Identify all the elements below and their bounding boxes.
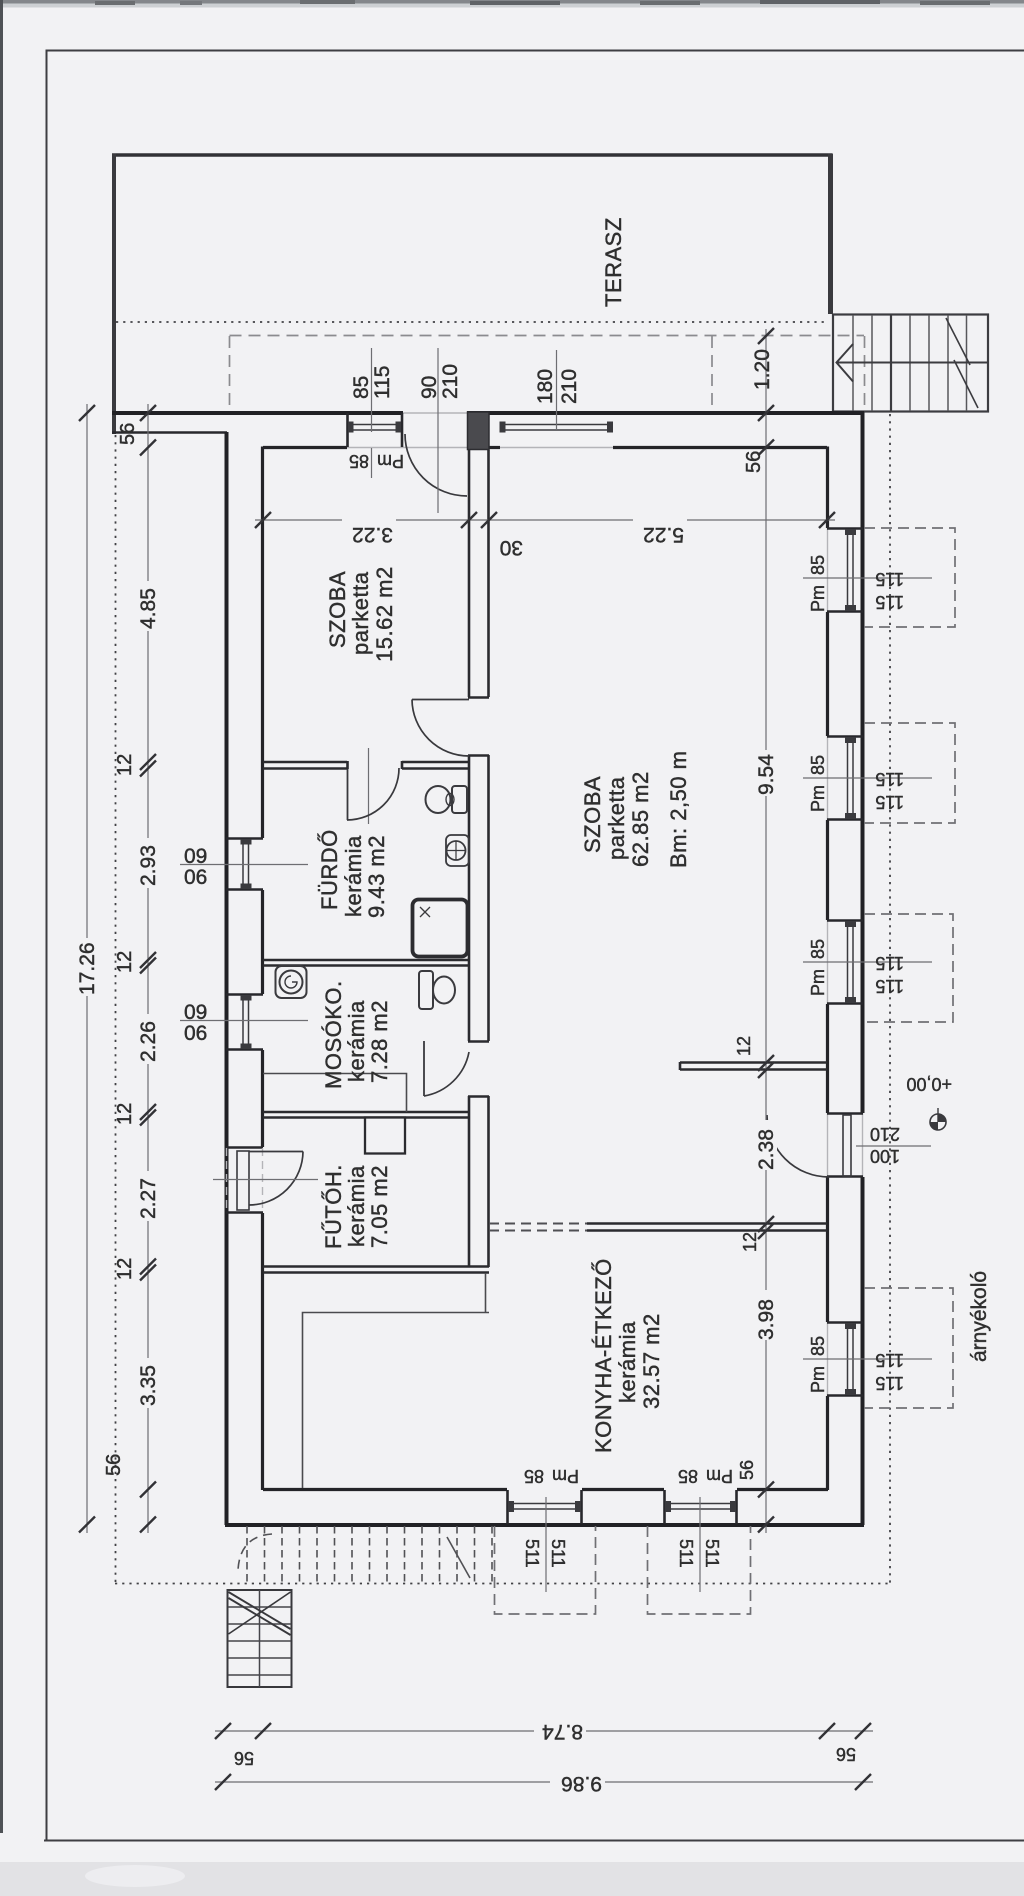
wall C (mosoko/futoh) — [263, 1112, 468, 1118]
stairs BL steps — [228, 1607, 291, 1675]
svg-text:Pm: Pm — [808, 969, 828, 996]
svg-text:12: 12 — [740, 1232, 760, 1252]
svg-text:511: 511 — [548, 1539, 568, 1568]
stairs TR mid rail — [836, 362, 988, 364]
dashed line horizontal — [230, 335, 865, 337]
svg-text:7.05 m2: 7.05 m2 — [367, 1165, 392, 1248]
terrace left wall — [112, 154, 116, 435]
right door arc — [767, 1115, 829, 1177]
svg-text:30: 30 — [500, 536, 523, 559]
walkline turn arc — [238, 1534, 272, 1570]
svg-text:115: 115 — [875, 769, 904, 789]
bottom door1 jambs — [506, 1490, 509, 1524]
svg-text:115: 115 — [875, 1373, 904, 1393]
steps upper flight — [247, 1526, 492, 1583]
top wall inner across openings (light) — [347, 447, 613, 449]
scan left edge line — [0, 0, 3, 1833]
svg-text:5.22: 5.22 — [643, 523, 684, 546]
svg-text:210: 210 — [558, 369, 581, 404]
svg-text:115: 115 — [875, 953, 904, 973]
dotted eaves top — [116, 321, 828, 323]
dotted eaves left — [115, 435, 117, 1583]
svg-text:Pm: Pm — [552, 1466, 579, 1486]
dashed line vertical mid — [711, 336, 713, 412]
svg-text:4.85: 4.85 — [137, 588, 160, 629]
svg-text:115: 115 — [371, 366, 394, 399]
terrace top wall — [112, 153, 832, 157]
svg-text:9.43 m2: 9.43 m2 — [364, 835, 389, 918]
svg-text:115: 115 — [875, 792, 904, 812]
svg-text:85: 85 — [349, 451, 369, 471]
right win1 — [827, 529, 863, 612]
door 90 top: arc — [405, 434, 467, 496]
svg-text:115: 115 — [875, 976, 904, 996]
dotted eaves right — [889, 414, 891, 1583]
right win3 — [827, 921, 863, 1004]
dim chain left — [147, 404, 149, 1533]
mosoko heater box — [276, 966, 307, 998]
dashed line vertical left — [229, 336, 231, 412]
bottom door2 glazing — [665, 1503, 736, 1505]
right door dim — [856, 1145, 931, 1147]
kitchen counter lines — [303, 1313, 490, 1489]
mosoko heater circle — [280, 971, 303, 994]
bottom wall inner face segments — [263, 1488, 828, 1491]
svg-text:Pm: Pm — [808, 1366, 828, 1393]
svg-text:06: 06 — [184, 866, 207, 889]
terrace right wall — [828, 154, 833, 315]
svg-text:17.26: 17.26 — [76, 942, 99, 995]
door A leaf — [347, 769, 349, 820]
svg-text:100: 100 — [870, 1146, 900, 1166]
top wall outer face — [112, 411, 403, 415]
right door 100 jambs — [827, 1112, 863, 1115]
left window sill dims — [180, 864, 308, 866]
svg-text:12: 12 — [114, 951, 136, 973]
svg-text:85: 85 — [808, 1336, 828, 1356]
svg-text:115: 115 — [875, 569, 904, 589]
svg-text:Pm: Pm — [808, 785, 828, 812]
vertical wall 30 — [468, 449, 489, 1267]
svg-text:62.85 m2: 62.85 m2 — [628, 771, 653, 867]
svg-text:parketta: parketta — [604, 776, 629, 860]
window 85 top: glazing — [348, 424, 401, 426]
svg-text:511: 511 — [522, 1539, 542, 1568]
furdo shower — [413, 900, 468, 957]
svg-text:115: 115 — [875, 1350, 904, 1370]
stairs TR step dark — [890, 315, 892, 411]
bottom door2 jambs — [663, 1490, 666, 1524]
svg-text:kerámia: kerámia — [615, 1321, 640, 1403]
svg-text:85: 85 — [524, 1466, 544, 1486]
bottom wall outer face — [225, 1523, 864, 1527]
svg-text:12: 12 — [114, 1103, 136, 1125]
svg-text:511: 511 — [702, 1539, 722, 1568]
svg-text:7.28 m2: 7.28 m2 — [367, 1000, 392, 1083]
bottom door dims — [545, 1497, 547, 1592]
svg-text:210: 210 — [439, 364, 462, 399]
window 85 top: end caps — [348, 422, 354, 433]
svg-text:2.93: 2.93 — [137, 845, 160, 886]
door mosoko arc — [424, 1052, 469, 1096]
svg-text:9.86: 9.86 — [561, 1772, 602, 1795]
left door open line — [249, 1151, 303, 1153]
svg-text:85: 85 — [808, 939, 828, 959]
svg-text:KONYHA-ÉTKEZŐ: KONYHA-ÉTKEZŐ — [591, 1258, 616, 1453]
svg-text:Bm: 2,50 m: Bm: 2,50 m — [666, 751, 691, 868]
svg-text:3.22: 3.22 — [352, 523, 393, 546]
svg-text:56: 56 — [743, 451, 765, 473]
right wall inner face segments — [826, 447, 829, 1491]
furdo wc bowl — [426, 786, 451, 813]
svg-text:511: 511 — [676, 1539, 696, 1568]
stairs TR arrow chevron — [837, 344, 854, 382]
dotted eaves bottom — [115, 1583, 890, 1585]
svg-text:32.57 m2: 32.57 m2 — [639, 1313, 664, 1409]
mosoko wc bowl — [433, 977, 455, 1004]
svg-text:2.38: 2.38 — [755, 1129, 778, 1170]
svg-text:8.74: 8.74 — [542, 1720, 583, 1743]
svg-text:85: 85 — [808, 755, 828, 775]
wall B (furdo/mosoko) — [263, 960, 468, 966]
dashed line vertical right — [864, 336, 866, 412]
3.22 / 30 / 5.22 dim line — [255, 519, 835, 521]
bottom overall dims — [215, 1730, 873, 1732]
door mosoko leaf — [423, 1041, 425, 1096]
svg-text:210: 210 — [870, 1124, 900, 1144]
window 85 top: jambs — [346, 413, 349, 447]
futoh door dim line — [213, 1179, 318, 1181]
dim chain right — [765, 329, 767, 1533]
scan bottom band — [0, 1862, 1024, 1896]
svg-text:06: 06 — [184, 1022, 207, 1045]
pillar 30 dark fill — [468, 412, 490, 450]
mosoko wc tank — [419, 971, 433, 1009]
stairs BL cross diagonal — [229, 1592, 291, 1634]
svg-text:kerámia: kerámia — [341, 835, 366, 917]
svg-text:12: 12 — [734, 1036, 754, 1056]
left win2 glazing — [242, 995, 244, 1049]
opening 180: glazing — [500, 424, 612, 426]
svg-text:kerámia: kerámia — [344, 1000, 369, 1082]
svg-text:12: 12 — [114, 754, 136, 776]
right window dim lines + labels — [803, 578, 932, 1359]
right stub wall — [680, 1062, 827, 1070]
svg-text:12: 12 — [114, 1258, 136, 1280]
svg-text:parketta: parketta — [348, 571, 373, 655]
furdo wc tank — [452, 786, 467, 813]
svg-text:FÜRDŐ: FÜRDŐ — [317, 829, 342, 910]
svg-text:SZOBA: SZOBA — [325, 571, 350, 648]
svg-text:árnyékoló: árnyékoló — [968, 1271, 991, 1362]
svg-text:1.20: 1.20 — [751, 349, 774, 390]
svg-text:2.27: 2.27 — [137, 1178, 160, 1219]
svg-text:180: 180 — [534, 369, 557, 404]
right win4 — [827, 1323, 863, 1396]
right win2 — [827, 737, 863, 820]
top wall outer across door (light) — [403, 412, 467, 414]
svg-text:3.98: 3.98 — [755, 1299, 778, 1340]
parapet bottom line — [112, 431, 227, 434]
svg-text:3.35: 3.35 — [137, 1365, 160, 1406]
opening 180: end caps — [500, 422, 506, 433]
top opening dim lines — [371, 348, 373, 432]
door A arc — [347, 768, 399, 820]
mosoko recess — [263, 1074, 407, 1113]
futoh chimney notch — [365, 1118, 405, 1154]
dim line 17.26 — [86, 404, 88, 1533]
svg-text:MOSÓKO.: MOSÓKO. — [321, 980, 346, 1089]
svg-text:56: 56 — [117, 423, 139, 445]
svg-text:SZOBA: SZOBA — [580, 776, 605, 853]
scan top edge band — [0, 0, 1024, 4]
stairs TR outline — [833, 315, 988, 412]
left win1 caps — [241, 839, 252, 845]
wall D (futoh/konyha) — [263, 1267, 489, 1273]
svg-text:56: 56 — [836, 1744, 856, 1764]
stairs TR steps — [853, 315, 967, 411]
svg-text:TERASZ: TERASZ — [601, 217, 626, 307]
svg-text:85: 85 — [678, 1466, 698, 1486]
top wall inner face segments — [263, 446, 827, 449]
furdo sink — [446, 835, 469, 866]
right door leaf — [843, 1115, 851, 1176]
bottom door1 glazing — [508, 1503, 581, 1505]
mid wall dashed part — [489, 1224, 587, 1231]
svg-text:56: 56 — [234, 1748, 254, 1768]
stairs BL walk line — [259, 1590, 261, 1687]
left win2 caps — [241, 995, 252, 1001]
left win1 glazing — [242, 839, 244, 889]
svg-text:FŰTŐH.: FŰTŐH. — [321, 1164, 346, 1249]
right wall outer face — [861, 412, 865, 1113]
svg-text:85: 85 — [808, 555, 828, 575]
svg-text:90: 90 — [418, 376, 441, 399]
left win2 jambs — [226, 993, 263, 996]
wall A (szoba/furdo) — [263, 761, 468, 769]
svg-text:09: 09 — [184, 845, 207, 868]
svg-text:56: 56 — [103, 1454, 125, 1476]
door szoba15 leaf — [412, 699, 469, 701]
svg-text:kerámia: kerámia — [344, 1165, 369, 1247]
svg-text:09: 09 — [184, 1001, 207, 1024]
stairs TR break diagonal — [946, 318, 970, 365]
steps break diagonal — [447, 1537, 470, 1578]
mid wall solid part — [587, 1224, 827, 1231]
left door arc — [249, 1152, 303, 1206]
svg-text:+0,00: +0,00 — [906, 1074, 952, 1094]
svg-text:56: 56 — [737, 1460, 757, 1480]
stairs BL cut double diagonal — [229, 1592, 291, 1629]
left wall inner face segments — [261, 447, 264, 1491]
svg-text:2.26: 2.26 — [137, 1021, 160, 1062]
left wall outer face — [225, 432, 229, 1525]
svg-text:9.54: 9.54 — [755, 754, 778, 795]
svg-text:Pm: Pm — [808, 585, 828, 612]
left door jambs — [226, 1146, 263, 1149]
svg-text:85: 85 — [350, 376, 373, 399]
left door faces dashed light — [226, 1148, 228, 1212]
left door leaf — [237, 1151, 249, 1210]
door szoba15 arc — [412, 700, 469, 757]
svg-text:15.62 m2: 15.62 m2 — [372, 566, 397, 662]
stairs BL lower flight outline — [228, 1590, 292, 1687]
svg-text:Pm: Pm — [706, 1466, 733, 1486]
svg-text:Pm: Pm — [377, 451, 404, 471]
left win1 jambs — [226, 837, 263, 840]
svg-text:115: 115 — [875, 592, 904, 612]
